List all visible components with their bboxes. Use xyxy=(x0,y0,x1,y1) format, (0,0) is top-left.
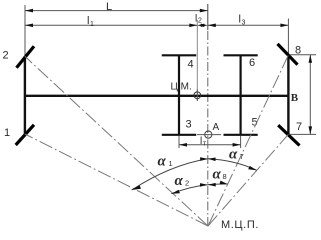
small arc alpha2 left half xyxy=(171,185,207,194)
frame bottom-left cap xyxy=(162,134,196,136)
svg-text:α: α xyxy=(158,154,167,170)
svg-text:7: 7 xyxy=(296,121,302,133)
B arrow top xyxy=(309,55,313,63)
arrowhead small arc right end xyxy=(220,181,228,185)
wheel 8 xyxy=(278,44,298,65)
svg-text:В: В xyxy=(291,92,299,104)
arrowhead small arc left end xyxy=(171,190,180,194)
svg-text:l: l xyxy=(200,136,202,147)
svg-text:6: 6 xyxy=(249,57,255,69)
dimension l1 arrow right xyxy=(189,24,197,28)
dimension L line xyxy=(25,10,208,12)
dimension l3 line xyxy=(208,24,289,26)
svg-text:2: 2 xyxy=(3,50,9,62)
svg-text:l: l xyxy=(195,14,197,25)
svg-text:α: α xyxy=(175,173,184,189)
svg-text:α: α xyxy=(213,167,222,183)
frame top-left cap xyxy=(162,54,196,56)
wheel 1 xyxy=(16,125,34,145)
dimension l3 arrow right xyxy=(280,24,288,28)
dimension l1 arrow left xyxy=(25,24,33,28)
svg-text:3: 3 xyxy=(186,119,192,131)
svg-text:3: 3 xyxy=(242,20,246,27)
extension line right x=288.4 xyxy=(287,19,289,56)
svg-text:α: α xyxy=(229,147,238,163)
CM symbol circle xyxy=(194,92,201,99)
B top extension line xyxy=(290,54,317,56)
dimension l3 arrow left xyxy=(208,24,216,28)
svg-text:2: 2 xyxy=(198,18,202,25)
dimension l1 line xyxy=(25,24,197,26)
A symbol circle xyxy=(205,131,212,138)
lt extension left xyxy=(178,136,180,148)
small arc alpha8 right half xyxy=(208,183,228,186)
arrowhead small arc at centerline right xyxy=(208,183,216,187)
center line x=207.8 dash-dot down to MCP xyxy=(207,30,209,226)
arrowhead big arc right end xyxy=(248,166,256,170)
frame right vertical thick xyxy=(240,55,242,135)
svg-text:1: 1 xyxy=(90,21,94,28)
svg-text:8: 8 xyxy=(223,172,227,181)
wheel 2 xyxy=(17,46,35,68)
svg-text:Ц.М.: Ц.М. xyxy=(171,82,192,93)
extension line left x=25 xyxy=(24,5,26,56)
arrowhead big arc at centerline left xyxy=(200,157,208,161)
right axle vertical thick xyxy=(287,55,289,135)
left axle vertical thick xyxy=(24,56,26,135)
wheel 7 xyxy=(278,125,299,145)
dimension L arrow left xyxy=(25,9,33,13)
extension line x=197.3 (CM line) xyxy=(196,20,198,101)
dash-dot line MCP to wheel 1 xyxy=(25,134,208,226)
svg-text:4: 4 xyxy=(188,59,194,71)
CM symbol vertical crosshair xyxy=(196,90,198,102)
frame left vertical thick xyxy=(178,55,180,135)
svg-text:2: 2 xyxy=(185,179,189,188)
arrowhead big arc at centerline right xyxy=(208,158,216,162)
frame top-right cap xyxy=(224,54,258,56)
arrowhead small arc at centerline left xyxy=(200,183,208,187)
big arc alpha7 right half xyxy=(208,159,257,171)
main axle horizontal thick xyxy=(24,95,290,97)
arrowhead big arc left end xyxy=(132,185,141,190)
svg-text:1: 1 xyxy=(4,127,10,139)
big arc alpha1 left half xyxy=(132,159,208,190)
svg-text:А: А xyxy=(213,122,220,133)
svg-text:М.Ц.П.: М.Ц.П. xyxy=(221,219,259,231)
dash-dot line MCP to wheel 8 xyxy=(208,55,288,226)
frame bottom-right cap xyxy=(224,134,258,136)
svg-text:7: 7 xyxy=(240,152,244,161)
svg-text:1: 1 xyxy=(169,159,173,168)
B bottom extension line xyxy=(290,133,317,135)
lt arrow right xyxy=(233,143,241,147)
lt dimension line xyxy=(179,144,241,146)
lt arrow left xyxy=(179,143,187,147)
dash-dot line MCP to wheel 2 xyxy=(25,56,208,226)
A symbol horizontal crosshair xyxy=(197,134,221,136)
B arrow bottom xyxy=(309,126,313,134)
svg-text:L: L xyxy=(106,1,112,13)
dimension L arrow right xyxy=(200,9,208,13)
dimension l2 arrows xyxy=(197,24,204,27)
B dimension line xyxy=(309,55,311,135)
lt extension right xyxy=(240,136,242,148)
dash-dot line MCP to wheel 7 xyxy=(208,134,288,226)
center line x=207.8 top solid xyxy=(207,4,209,30)
